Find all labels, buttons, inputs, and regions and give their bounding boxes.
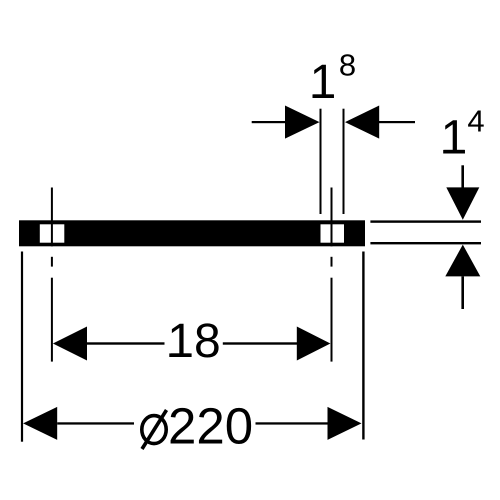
dimension 1.4 top reference line (370, 220, 481, 222)
dimension label 18 digit-1 foot serif (169, 353, 190, 357)
gasket cross-section bar (19, 220, 365, 246)
dimension 220 dimension line right segment (256, 422, 328, 424)
left hole center line long dash below bar (51, 278, 53, 362)
dimension 1.4 upper leader line (461, 165, 464, 188)
dimension 1.8 right extension line (343, 109, 345, 214)
dimension 1.4 bottom reference line (370, 242, 481, 244)
right hole (white opening in bar) (321, 224, 345, 242)
left hole (white opening in bar) (40, 224, 65, 242)
dimension 1.8 left extension line (320, 109, 322, 214)
svg-text:1: 1 (441, 112, 468, 165)
right hole center line (solid part, through bar) (331, 188, 333, 247)
dimension 1.8 left arrowhead (285, 106, 320, 139)
diameter symbol slash (142, 410, 167, 449)
dimension 1.8 right arrowhead (345, 106, 379, 139)
dimension 220 dimension line left segment (57, 422, 134, 424)
dimension 220 right extension line (362, 252, 364, 440)
svg-text:8: 8 (339, 48, 356, 83)
svg-text:18: 18 (167, 315, 220, 368)
dimension 18 dimension line left segment (87, 342, 165, 344)
svg-text:220: 220 (168, 398, 253, 455)
dimension 1.8 dimension line left segment (252, 121, 286, 123)
dimension 1.8 dimension line right segment (379, 121, 415, 123)
right hole center line long dash below bar (331, 278, 333, 362)
left hole center line (solid part, through bar) (51, 188, 53, 247)
dimension 1.4 upward arrowhead (445, 245, 480, 277)
dimension label 1.8 main digit foot serif (313, 94, 334, 98)
diameter symbol circle (142, 416, 166, 444)
svg-text:1: 1 (310, 56, 337, 109)
right hole center line short dash below bar (331, 257, 333, 267)
dimension 1.4 downward arrowhead (446, 187, 479, 219)
dimension 220 right arrowhead (328, 407, 362, 440)
dimension 1.4 lower leader line (461, 276, 464, 309)
dimension 18 right arrowhead (297, 327, 331, 361)
left hole center line short dash below bar (51, 257, 53, 267)
dimension 220 left extension line (21, 252, 23, 442)
dimension 18 dimension line right segment (223, 342, 297, 344)
dimension label 1.4 main digit foot serif (443, 150, 464, 154)
svg-text:4: 4 (467, 104, 484, 139)
dimension 18 left arrowhead (53, 327, 87, 361)
dimension 220 left arrowhead (23, 407, 57, 440)
